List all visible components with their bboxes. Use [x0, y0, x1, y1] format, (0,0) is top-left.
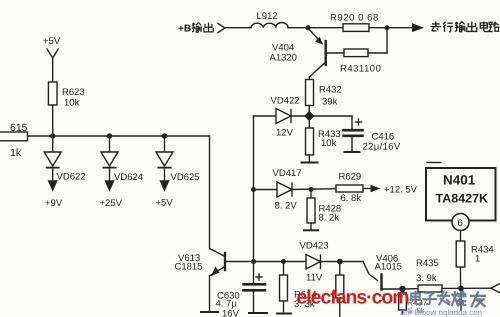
- svg-text:+B: +B: [178, 24, 191, 35]
- svg-text:6: 6: [458, 218, 463, 229]
- svg-text:10k: 10k: [321, 138, 337, 149]
- svg-text:R432: R432: [319, 85, 342, 96]
- svg-text:R629: R629: [339, 172, 362, 183]
- svg-text:elecfans·com: elecfans·com: [297, 287, 410, 309]
- svg-text:A1320: A1320: [270, 53, 297, 64]
- svg-text:R435: R435: [416, 258, 439, 269]
- svg-text:1k: 1k: [10, 147, 22, 159]
- svg-text:L912: L912: [257, 11, 278, 22]
- svg-text:+25V: +25V: [100, 198, 123, 209]
- svg-text:3. 9k: 3. 9k: [416, 273, 437, 284]
- svg-text:+12. 5V: +12. 5V: [384, 185, 418, 196]
- svg-text:VD417: VD417: [273, 168, 302, 179]
- svg-text:VD625: VD625: [171, 172, 200, 183]
- svg-text:+5V: +5V: [43, 36, 61, 47]
- svg-text:VD624: VD624: [114, 172, 143, 183]
- svg-text:6. 8k: 6. 8k: [341, 193, 362, 204]
- svg-text:VD423: VD423: [300, 241, 329, 252]
- svg-text:VD422: VD422: [271, 96, 300, 107]
- svg-text:10k: 10k: [64, 98, 80, 109]
- svg-text:16V: 16V: [222, 309, 240, 317]
- svg-text:+5V: +5V: [156, 198, 174, 209]
- svg-text:R431100: R431100: [340, 64, 381, 75]
- svg-text:22μ/16V: 22μ/16V: [363, 142, 401, 153]
- svg-text:8. 2V: 8. 2V: [275, 201, 298, 212]
- svg-text:C1815: C1815: [175, 262, 203, 273]
- svg-text:R623: R623: [62, 87, 85, 98]
- svg-text:8. 2k: 8. 2k: [319, 213, 340, 224]
- svg-text:+9V: +9V: [45, 198, 63, 209]
- svg-text:A1015: A1015: [375, 262, 402, 273]
- svg-text:N401: N401: [443, 173, 476, 188]
- svg-text:12V: 12V: [276, 128, 294, 139]
- svg-text:TA8427K: TA8427K: [436, 192, 489, 206]
- svg-text:39k: 39k: [322, 97, 338, 108]
- svg-text:R920 0 68: R920 0 68: [330, 13, 379, 24]
- svg-text:Am·Bloow oqladda con: Am·Bloow oqladda con: [400, 308, 482, 317]
- svg-text:615: 615: [10, 122, 28, 134]
- svg-text:1: 1: [475, 254, 480, 265]
- svg-text:11V: 11V: [306, 273, 323, 284]
- svg-text:VD622: VD622: [57, 172, 86, 183]
